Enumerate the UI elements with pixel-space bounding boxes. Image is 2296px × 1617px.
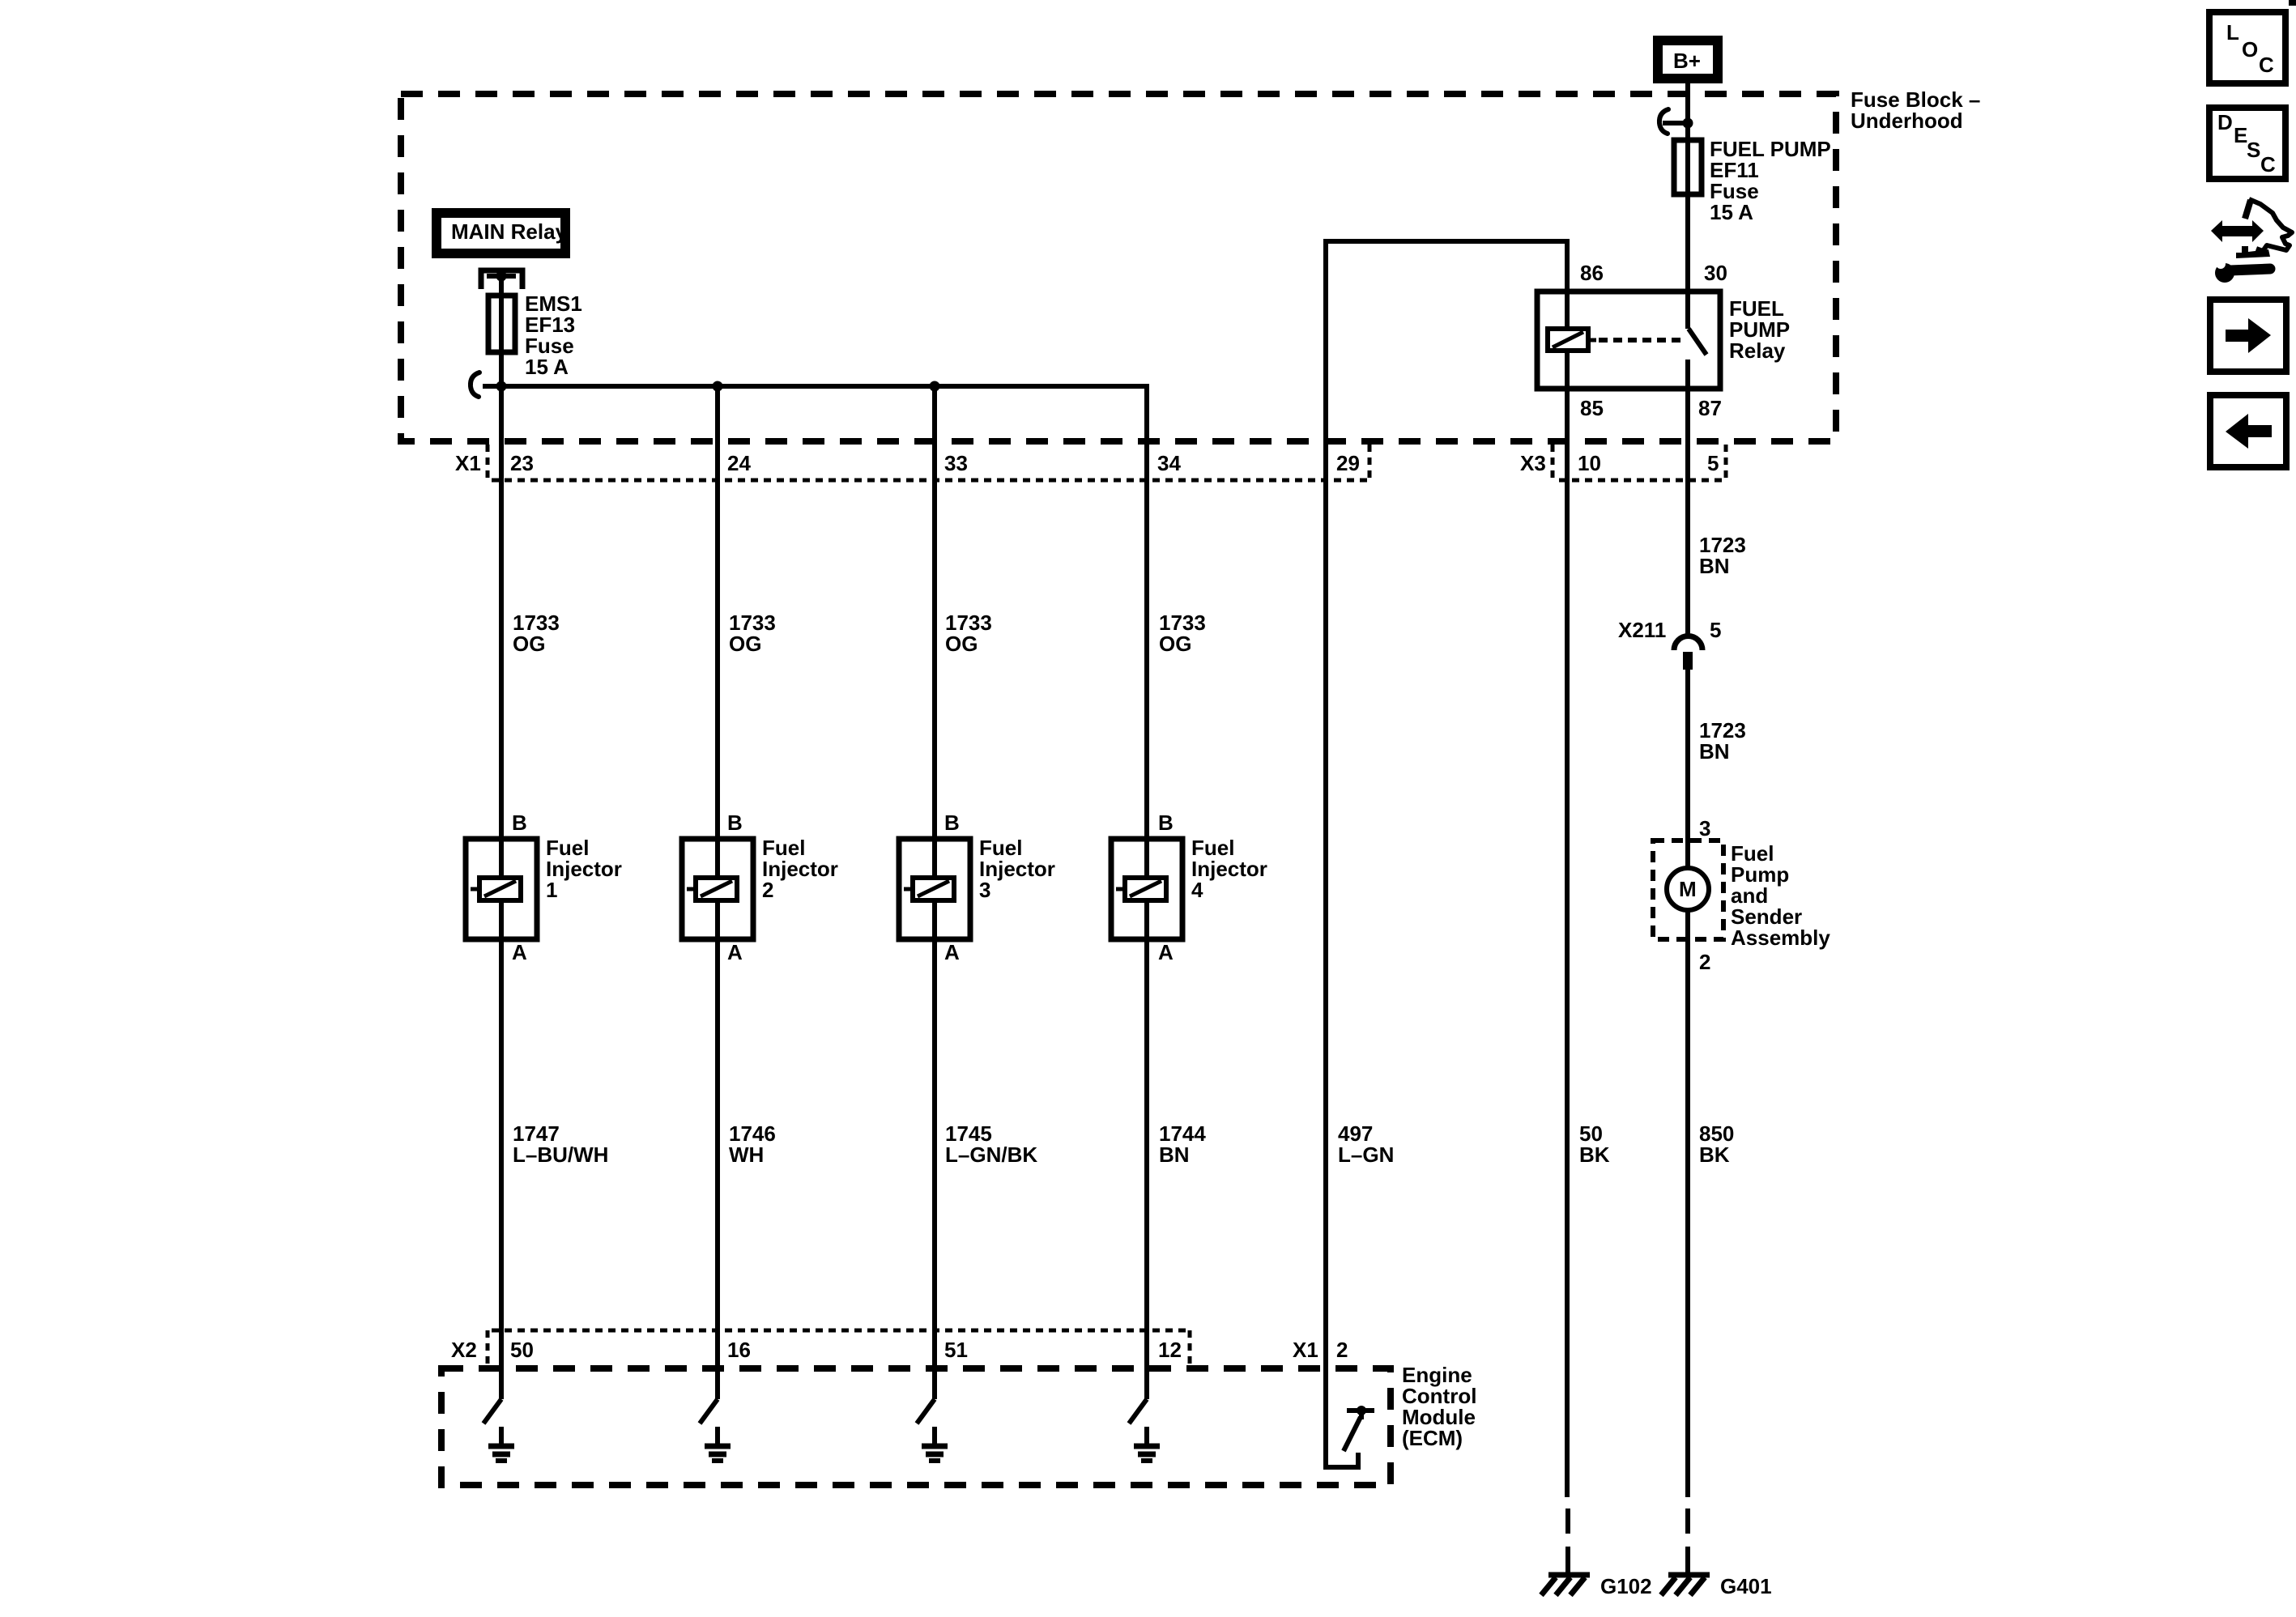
connector X1 dotted band line: [492, 479, 1369, 483]
svg-text:OG: OG: [945, 632, 978, 656]
connector X3 separator after pin 5: [1724, 445, 1728, 481]
svg-text:L–GN/BK: L–GN/BK: [945, 1143, 1037, 1167]
connector X1 separator after pin 29: [1368, 445, 1372, 481]
fuel injector 3: [899, 839, 970, 939]
svg-text:B: B: [1158, 811, 1174, 835]
fuse FUEL PUMP EF11 15A: [1674, 140, 1702, 194]
fuse block underhood dashed box: [401, 94, 1836, 441]
svg-text:30: 30: [1704, 261, 1727, 285]
svg-text:BN: BN: [1699, 739, 1730, 764]
svg-text:(ECM): (ECM): [1402, 1426, 1463, 1450]
svg-text:OG: OG: [729, 632, 761, 656]
svg-text:12: 12: [1158, 1338, 1182, 1362]
svg-text:BK: BK: [1579, 1143, 1610, 1167]
svg-text:24: 24: [727, 451, 751, 475]
relay pin 86 internal lead: [1565, 291, 1570, 330]
svg-text:MAIN Relay: MAIN Relay: [451, 219, 568, 244]
svg-text:87: 87: [1698, 396, 1722, 420]
svg-text:D: D: [2217, 110, 2233, 134]
svg-text:1: 1: [546, 878, 557, 902]
svg-text:16: 16: [727, 1338, 751, 1362]
wire ECM driver feed (497 circuit) to relay pin 86: [1326, 241, 1567, 1368]
svg-text:3: 3: [979, 878, 990, 902]
svg-text:B: B: [727, 811, 743, 835]
MAIN relay cavity bracket: [481, 270, 522, 289]
wire injector 3 drop: [932, 386, 937, 1399]
svg-text:5: 5: [1707, 451, 1719, 475]
MAIN Relay label box: [432, 208, 570, 258]
svg-text:3: 3: [1699, 816, 1710, 840]
svg-text:2: 2: [1336, 1338, 1348, 1362]
svg-text:M: M: [1679, 877, 1697, 901]
fuel pump relay box: [1537, 291, 1720, 389]
dashed ground lead G102: [1565, 1508, 1570, 1573]
wire injector 4 drop: [1144, 384, 1149, 1399]
fuel pump motor M: [1667, 868, 1709, 910]
chassis ground G401: [1661, 1567, 1710, 1595]
dashed ground lead G401: [1685, 1508, 1690, 1573]
junction dot bus/injector2: [713, 381, 723, 392]
svg-text:4: 4: [1191, 878, 1203, 902]
fuel injector 4: [1111, 839, 1182, 939]
svg-text:A: A: [512, 940, 527, 964]
svg-text:29: 29: [1336, 451, 1360, 475]
svg-text:X3: X3: [1520, 451, 1546, 475]
svg-text:Assembly: Assembly: [1731, 926, 1830, 950]
double arrow part of icon: [2211, 220, 2264, 242]
in-line connector X211: [1674, 636, 1702, 670]
svg-text:85: 85: [1580, 396, 1604, 420]
ECM low-side driver pin 51: [917, 1399, 948, 1461]
svg-text:5: 5: [1710, 618, 1721, 642]
ECM low-side driver pin 16: [700, 1399, 731, 1461]
svg-text:OG: OG: [1159, 632, 1191, 656]
svg-text:S: S: [2247, 138, 2260, 162]
ECM fuel pump relay driver (pin X1-2): [1326, 1368, 1374, 1467]
DESC button: [2209, 108, 2285, 179]
svg-text:C: C: [2259, 53, 2274, 77]
svg-text:X1: X1: [1293, 1338, 1318, 1362]
svg-text:WH: WH: [729, 1143, 764, 1167]
junction dot EMS1/bus: [496, 381, 507, 392]
connector X2 separator after pin 12: [1188, 1330, 1192, 1368]
wrench part of icon: [2213, 257, 2270, 283]
svg-text:15 A: 15 A: [1710, 200, 1753, 224]
svg-text:OG: OG: [513, 632, 545, 656]
svg-text:2: 2: [762, 878, 773, 902]
diagnostic car icon: [2211, 199, 2292, 283]
bus clip hook at EMS1 junction: [471, 372, 479, 397]
connector X1 separator after X1 label: [486, 445, 490, 481]
svg-text:G401: G401: [1720, 1574, 1772, 1598]
svg-text:E: E: [2234, 123, 2247, 147]
svg-text:A: A: [1158, 940, 1174, 964]
forward arrow button: [2210, 300, 2286, 372]
connector X2 separator after X2 label: [486, 1330, 490, 1368]
svg-text:10: 10: [1578, 451, 1601, 475]
svg-text:X1: X1: [455, 451, 481, 475]
svg-text:15 A: 15 A: [525, 355, 569, 379]
svg-text:50: 50: [510, 1338, 534, 1362]
svg-text:B: B: [512, 811, 527, 835]
svg-text:L–GN: L–GN: [1338, 1143, 1394, 1167]
engine control module dashed box: [441, 1368, 1391, 1485]
relay pin 87 internal lead: [1685, 360, 1690, 389]
LOC button: [2209, 12, 2285, 83]
svg-text:A: A: [944, 940, 960, 964]
connector X3 separator after X3 label: [1551, 445, 1555, 481]
relay coil: [1548, 329, 1588, 351]
relay coil stub: [1588, 338, 1596, 343]
ECM low-side driver pin 50: [483, 1399, 514, 1461]
svg-text:BN: BN: [1699, 554, 1730, 578]
fuel pump and sender assembly dashed box: [1653, 840, 1723, 939]
svg-text:51: 51: [944, 1338, 968, 1362]
fuel injector 2: [682, 839, 753, 939]
back arrow button: [2210, 395, 2286, 467]
fuel injector 1: [466, 839, 537, 939]
bus clip hook at B+ junction: [1659, 109, 1688, 134]
wire X211 to fuel pump: [1685, 670, 1690, 868]
wire injector 2 drop: [715, 386, 720, 1399]
wire fuel pump to ground G401: [1685, 910, 1690, 1497]
junction dot below B+: [1683, 118, 1693, 129]
relay switch blade: [1689, 329, 1706, 355]
svg-text:23: 23: [510, 451, 534, 475]
relay actuating dashed link: [1599, 338, 1683, 343]
bus wire from EMS1 fuse to injector 4 drop: [483, 384, 1149, 389]
svg-text:86: 86: [1580, 261, 1604, 285]
junction dot bus/injector3: [930, 381, 940, 392]
svg-text:2: 2: [1699, 950, 1710, 974]
svg-text:Relay: Relay: [1729, 338, 1786, 363]
svg-text:BN: BN: [1159, 1143, 1190, 1167]
B+ power feed box: [1653, 36, 1723, 83]
svg-text:C: C: [2260, 152, 2276, 177]
relay pin 85 internal lead: [1565, 351, 1570, 389]
connector X2 dotted band line (ECM): [492, 1329, 1190, 1333]
fuse EMS1 EF13 15A: [488, 296, 515, 352]
svg-text:L: L: [2226, 20, 2239, 45]
wire B+ to fuel pump relay pin 30: [1685, 83, 1690, 329]
svg-text:G102: G102: [1600, 1574, 1652, 1598]
svg-text:B: B: [944, 811, 960, 835]
page corner artifact: [2289, 0, 2296, 6]
wire relay pin 85 to ground G102: [1565, 351, 1570, 1497]
svg-text:BK: BK: [1699, 1143, 1730, 1167]
chassis ground G102: [1541, 1567, 1590, 1595]
svg-text:X211: X211: [1618, 618, 1666, 642]
ECM low-side driver pin 12: [1129, 1399, 1160, 1461]
connector X3 dotted band line: [1559, 479, 1726, 483]
wire MAIN relay bracket to EMS1 fuse to bus: [499, 276, 504, 386]
svg-text:L–BU/WH: L–BU/WH: [513, 1143, 608, 1167]
svg-text:34: 34: [1157, 451, 1181, 475]
wire injector 1 drop: [499, 386, 504, 1399]
wire relay pin 87 to X211: [1685, 360, 1690, 637]
svg-text:O: O: [2242, 37, 2258, 62]
svg-text:B+: B+: [1673, 49, 1701, 73]
svg-text:X2: X2: [451, 1338, 477, 1362]
svg-text:33: 33: [944, 451, 968, 475]
svg-text:A: A: [727, 940, 743, 964]
relay pin 30 internal lead: [1685, 291, 1690, 329]
svg-text:Underhood: Underhood: [1851, 109, 1963, 133]
